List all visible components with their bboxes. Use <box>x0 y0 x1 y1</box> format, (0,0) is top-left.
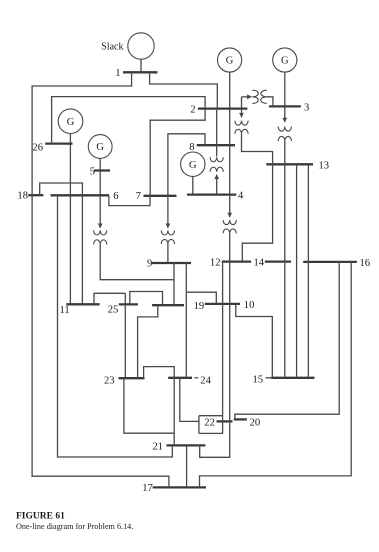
wire G to bus 5 / bus 6 (continues into transformer 6-9) <box>99 158 101 195</box>
wire bus16 to bus20 <box>235 262 339 420</box>
wire bus2 to bus7 step <box>150 109 205 196</box>
bus 18 bar <box>28 194 43 196</box>
wire bus9/24 line branch hop to bus10 <box>186 292 216 304</box>
wire bus11 hop to bus25 (continues down to bus 23) <box>94 293 125 304</box>
wire G to bus 4 <box>192 177 194 195</box>
svg-text:19: 19 <box>194 301 205 312</box>
transformer T7-9 (arrow down, windings) <box>167 196 169 228</box>
svg-text:9: 9 <box>147 259 152 270</box>
svg-text:Slack: Slack <box>101 42 123 53</box>
bus 1 bar <box>123 71 158 73</box>
generator G at bus 5 <box>88 135 112 159</box>
svg-text:10: 10 <box>244 300 255 311</box>
svg-text:G: G <box>189 160 197 171</box>
bus 5 bar <box>94 169 110 171</box>
bus 4 bar <box>187 193 236 195</box>
wire G to bus 3 riser <box>284 72 286 106</box>
svg-text:One-line diagram for Problem 6: One-line diagram for Problem 6.14. <box>16 522 133 531</box>
svg-text:2: 2 <box>190 105 195 116</box>
svg-text:6: 6 <box>113 191 118 202</box>
svg-text:7: 7 <box>136 191 141 202</box>
svg-text:21: 21 <box>153 442 164 453</box>
wire bus23 bottom rectangle to 21-line <box>124 378 174 433</box>
wire G to bus 2 (top of mega line) <box>229 72 231 108</box>
bus 12 bar <box>222 260 251 262</box>
wire bus23 hop to bus21 long vertical <box>144 367 175 446</box>
svg-text:14: 14 <box>254 258 265 269</box>
svg-text:4: 4 <box>238 191 244 202</box>
wire bus16 to bus17 right loop <box>200 262 352 488</box>
svg-text:13: 13 <box>319 160 330 171</box>
wire bus18 to bus6 rung <box>40 183 83 195</box>
transformer T3-13 (arrow down, windings), line continues to bus 15 <box>284 106 286 122</box>
bus 3 bar <box>269 105 301 107</box>
generator G at bus 26 <box>58 109 83 134</box>
wire bus26 to bus 2 <box>52 97 206 144</box>
svg-text:20: 20 <box>250 417 261 428</box>
svg-text:G: G <box>226 56 234 67</box>
wire slack gen to bus 1 <box>140 59 142 72</box>
wire bus7 to bus8 hop <box>168 134 205 196</box>
bus 6 bar <box>51 194 110 196</box>
tick label 15 to bus 15 bar <box>266 377 272 379</box>
bus 25 bar <box>119 303 138 305</box>
bus 2 bar <box>198 107 248 109</box>
wire bus1 left drop to 18/17 loop <box>32 72 169 487</box>
transformer T4-12 on mega line (arrow down, windings) <box>229 195 231 217</box>
wire bus21 to bus17 <box>186 445 188 487</box>
bus 10 bar <box>205 303 240 305</box>
wire bus19 to bus23 step <box>138 305 158 378</box>
generator G at bus 3 <box>273 48 297 72</box>
bus 23 bar <box>119 377 145 379</box>
wire bus24 to bus22 <box>180 378 199 422</box>
generator slack (no letter) <box>128 33 154 59</box>
bus 11 bar <box>66 303 99 305</box>
svg-text:1: 1 <box>115 68 120 79</box>
transformer T6-9 (arrow down, windings) to bus 9 riser <box>99 195 101 228</box>
bus 14 bar <box>265 260 291 262</box>
wire bus22 label hop box <box>198 416 200 434</box>
svg-text:5: 5 <box>90 167 95 178</box>
wire mega line bus2-8-4-12-10 segments <box>229 109 231 195</box>
wire T2-3 right side down to bus 3 <box>267 97 273 107</box>
svg-text:25: 25 <box>108 305 119 316</box>
transformer T2-4 (windings between bus 8 and bus 4, arrow up) <box>216 109 218 157</box>
wire bus13 to bus15 line b (crosses bus 16) <box>307 164 309 377</box>
bus 7 bar <box>144 195 177 197</box>
wire bus1 right drop to bus 2 <box>150 72 218 108</box>
wire bus25 to bus23 <box>124 293 126 378</box>
svg-text:12: 12 <box>210 258 221 269</box>
wire bus13 to bus15 line a <box>296 164 298 377</box>
svg-text:23: 23 <box>104 376 115 387</box>
wire G to bus 26 (continues to bus 11) <box>69 134 71 305</box>
bus 8 bar <box>197 144 235 146</box>
bus 15 bar <box>271 377 314 379</box>
svg-text:G: G <box>67 117 75 128</box>
wire bus10 to bus15 step <box>236 304 272 378</box>
tick to label 24 <box>195 377 199 379</box>
svg-text:16: 16 <box>360 258 371 269</box>
bus 19 bar <box>152 304 184 306</box>
bus 21 bar <box>166 444 205 446</box>
wire bus12 to bus22 box line <box>222 262 224 434</box>
generator G at bus 4 <box>181 152 205 176</box>
bus 13 bar <box>266 163 313 165</box>
svg-text:11: 11 <box>60 305 70 316</box>
wire bus10 down to bus21 hook <box>200 304 230 457</box>
wire bus9 to bus19 <box>173 263 175 305</box>
svg-text:22: 22 <box>204 417 215 428</box>
transformer T2-12 (arrow down, windings, steps to bus 12) <box>241 109 243 118</box>
wire bus6 to bus21 long left line <box>58 195 173 457</box>
bus 17 bar <box>153 486 206 488</box>
wire bus6 to bus11 <box>81 195 83 304</box>
bus 20 bar <box>234 418 247 420</box>
generator G at bus 2 <box>218 48 242 72</box>
wire bus9 to bus24 (with branch to bus 10) <box>185 263 187 378</box>
svg-text:15: 15 <box>253 375 264 386</box>
svg-text:3: 3 <box>304 103 309 114</box>
svg-text:26: 26 <box>32 143 43 154</box>
bus 24 bar <box>168 377 192 379</box>
svg-text:G: G <box>281 56 289 67</box>
bus 26 bar <box>45 142 72 144</box>
svg-text:24: 24 <box>200 376 211 387</box>
svg-text:18: 18 <box>17 191 28 202</box>
svg-text:G: G <box>96 142 104 153</box>
transformer T2-3 horizontal (arrow right, windings) <box>241 97 243 109</box>
svg-text:17: 17 <box>142 483 153 494</box>
bus 22 bar <box>217 420 233 422</box>
wire bus6 to bus7 U-link <box>109 195 150 205</box>
bus 9 bar <box>152 262 191 264</box>
wire bus25 hop to bus19 <box>130 292 163 306</box>
svg-text:8: 8 <box>189 142 194 153</box>
bus 16 bar <box>303 261 357 263</box>
svg-text:FIGURE 61: FIGURE 61 <box>16 512 65 522</box>
